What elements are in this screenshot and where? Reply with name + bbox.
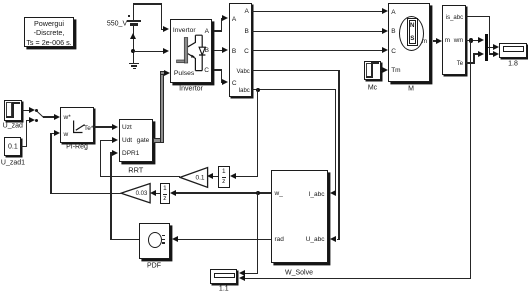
- wire Iabc branch to unit delay: [257, 89, 258, 177]
- wire measurement C to motor C: [252, 50, 382, 51]
- wire U_zad1 to manual switch: [21, 146, 27, 147]
- node junction on w_ wire: [256, 191, 260, 195]
- node junction on wm wire: [469, 38, 473, 42]
- wire unit delay to gain 0.03: [156, 193, 160, 194]
- wire gain 0.03 to PI-Reg w: [50, 193, 121, 194]
- wire Te to mux: [466, 62, 475, 63]
- node junction on Iabc wire: [256, 88, 260, 92]
- display 1.8: [499, 43, 527, 58]
- block motor M: [388, 3, 430, 82]
- wire wm to mux: [466, 40, 478, 41]
- wire W_Solve w_ to unit delay: [176, 192, 271, 193]
- wire invertor C to measurement C: [214, 69, 222, 70]
- wire gain 0.1 to RRT Udt: [100, 176, 180, 177]
- wire invertor A to measurement A: [214, 30, 222, 31]
- wire w_ branch to display 1.1: [257, 192, 258, 274]
- wire Iabc to W_Solve I_abc: [252, 89, 336, 90]
- label 550_V: [107, 20, 127, 27]
- wire measurement B to motor B: [252, 31, 382, 32]
- block U_zad1 constant 0.1: [4, 137, 21, 156]
- wire Vabc to W_Solve U_abc: [252, 70, 340, 71]
- wire unit delay to gain 0.1: [213, 176, 218, 177]
- svg-text:0.1: 0.1: [195, 174, 204, 181]
- wire battery minus to ground: [133, 24, 134, 64]
- wire mux to display 1.8: [488, 47, 493, 48]
- wire measurement A to motor A: [252, 11, 382, 12]
- wire is_abc to display 1.8: [466, 16, 490, 17]
- display 1.1: [210, 269, 237, 283]
- block Powergui: [24, 17, 74, 47]
- wire W_Solve rad to PDF: [178, 239, 271, 240]
- wire battery plus to invertor input 1: [133, 3, 134, 20]
- block RRT: [119, 119, 153, 162]
- transistor-diode icon inside invertor: [175, 33, 207, 73]
- wire junction to invertor input 2: [133, 51, 165, 52]
- wire Mc to motor Tm: [381, 70, 383, 71]
- block W_Solve: [271, 170, 328, 263]
- gain 0.1: [179, 166, 209, 189]
- mux: [485, 34, 488, 61]
- gain 0.03: [120, 182, 152, 205]
- wire PI-Reg Te* to RRT Uzt: [94, 126, 112, 127]
- wire RRT gate to invertor pulses (thick): [153, 138, 163, 143]
- wire U_zad to manual switch: [22, 110, 29, 111]
- wire wm branch down to display 1.1: [470, 40, 471, 280]
- wire invertor B to measurement B: [214, 50, 222, 51]
- node junction on DC bus: [131, 49, 135, 53]
- unit delay 1/z top: [218, 166, 230, 187]
- block Invertor: [170, 19, 213, 83]
- ground: [129, 63, 140, 65]
- block U_zad step source: [4, 100, 22, 120]
- block PI-Reg: [60, 107, 94, 143]
- battery DC source 550_V: [127, 20, 141, 21]
- block PDF: [139, 223, 170, 259]
- block three-phase measurement Vabc Iabc: [229, 3, 252, 96]
- wire motor m to selector: [433, 40, 437, 41]
- unit delay 1/z bottom: [160, 183, 171, 204]
- wire manual switch to PI-Reg w*: [43, 116, 53, 117]
- block bus selector is_abc wm Te: [442, 5, 466, 75]
- manual switch: [35, 109, 38, 112]
- wire PDF to RRT DPR1: [110, 239, 139, 240]
- svg-text:0.03: 0.03: [135, 192, 147, 198]
- block Mc step source: [364, 61, 382, 81]
